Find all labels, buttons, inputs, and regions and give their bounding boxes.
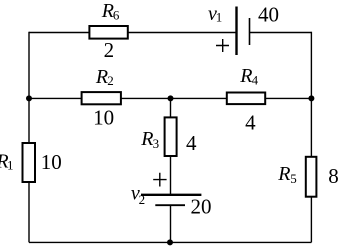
node right middle bbox=[308, 95, 314, 101]
resistor R6 bbox=[89, 26, 127, 39]
resistor R4 bbox=[227, 93, 265, 105]
wire bottom rail bbox=[29, 241, 311, 243]
svg-text:8: 8 bbox=[328, 164, 339, 188]
svg-text:R: R bbox=[140, 128, 153, 150]
svg-text:2: 2 bbox=[107, 73, 114, 88]
svg-text:10: 10 bbox=[93, 105, 114, 129]
svg-text:2: 2 bbox=[139, 192, 146, 207]
svg-text:3: 3 bbox=[153, 136, 160, 151]
svg-text:20: 20 bbox=[191, 194, 212, 218]
resistor R5 bbox=[306, 157, 317, 197]
wire left rail bbox=[28, 32, 30, 243]
svg-text:5: 5 bbox=[290, 171, 297, 186]
wire top rail left of v1 bbox=[29, 32, 237, 34]
resistor R2 bbox=[82, 92, 121, 104]
svg-text:6: 6 bbox=[113, 8, 120, 23]
node left middle bbox=[26, 95, 32, 101]
wire right rail bbox=[310, 32, 312, 243]
svg-text:4: 4 bbox=[245, 111, 256, 135]
wire top rail v1 to right corner bbox=[250, 32, 312, 34]
svg-text:2: 2 bbox=[104, 38, 115, 62]
wire middle branch lower bbox=[170, 205, 172, 242]
source v1 long plate bbox=[235, 7, 237, 56]
svg-text:1: 1 bbox=[216, 9, 223, 24]
source v2 long plate bbox=[141, 194, 201, 196]
node center middle bbox=[168, 95, 174, 101]
svg-text:4: 4 bbox=[252, 73, 259, 88]
svg-text:R: R bbox=[239, 65, 252, 87]
svg-text:R: R bbox=[277, 163, 290, 185]
svg-text:1: 1 bbox=[7, 158, 14, 173]
svg-text:10: 10 bbox=[41, 150, 62, 174]
v1 plus sign bbox=[216, 39, 229, 52]
svg-text:R: R bbox=[95, 66, 108, 88]
source v1 short plate bbox=[249, 18, 251, 45]
wire middle rail bbox=[29, 97, 311, 99]
node bottom center bbox=[167, 239, 173, 245]
v2 plus sign bbox=[153, 173, 166, 187]
svg-text:40: 40 bbox=[258, 3, 279, 27]
resistor R1 bbox=[23, 143, 36, 182]
wire middle branch upper bbox=[170, 98, 172, 194]
svg-text:4: 4 bbox=[186, 131, 197, 155]
source v2 short plate bbox=[155, 204, 185, 206]
resistor R3 bbox=[165, 117, 177, 156]
